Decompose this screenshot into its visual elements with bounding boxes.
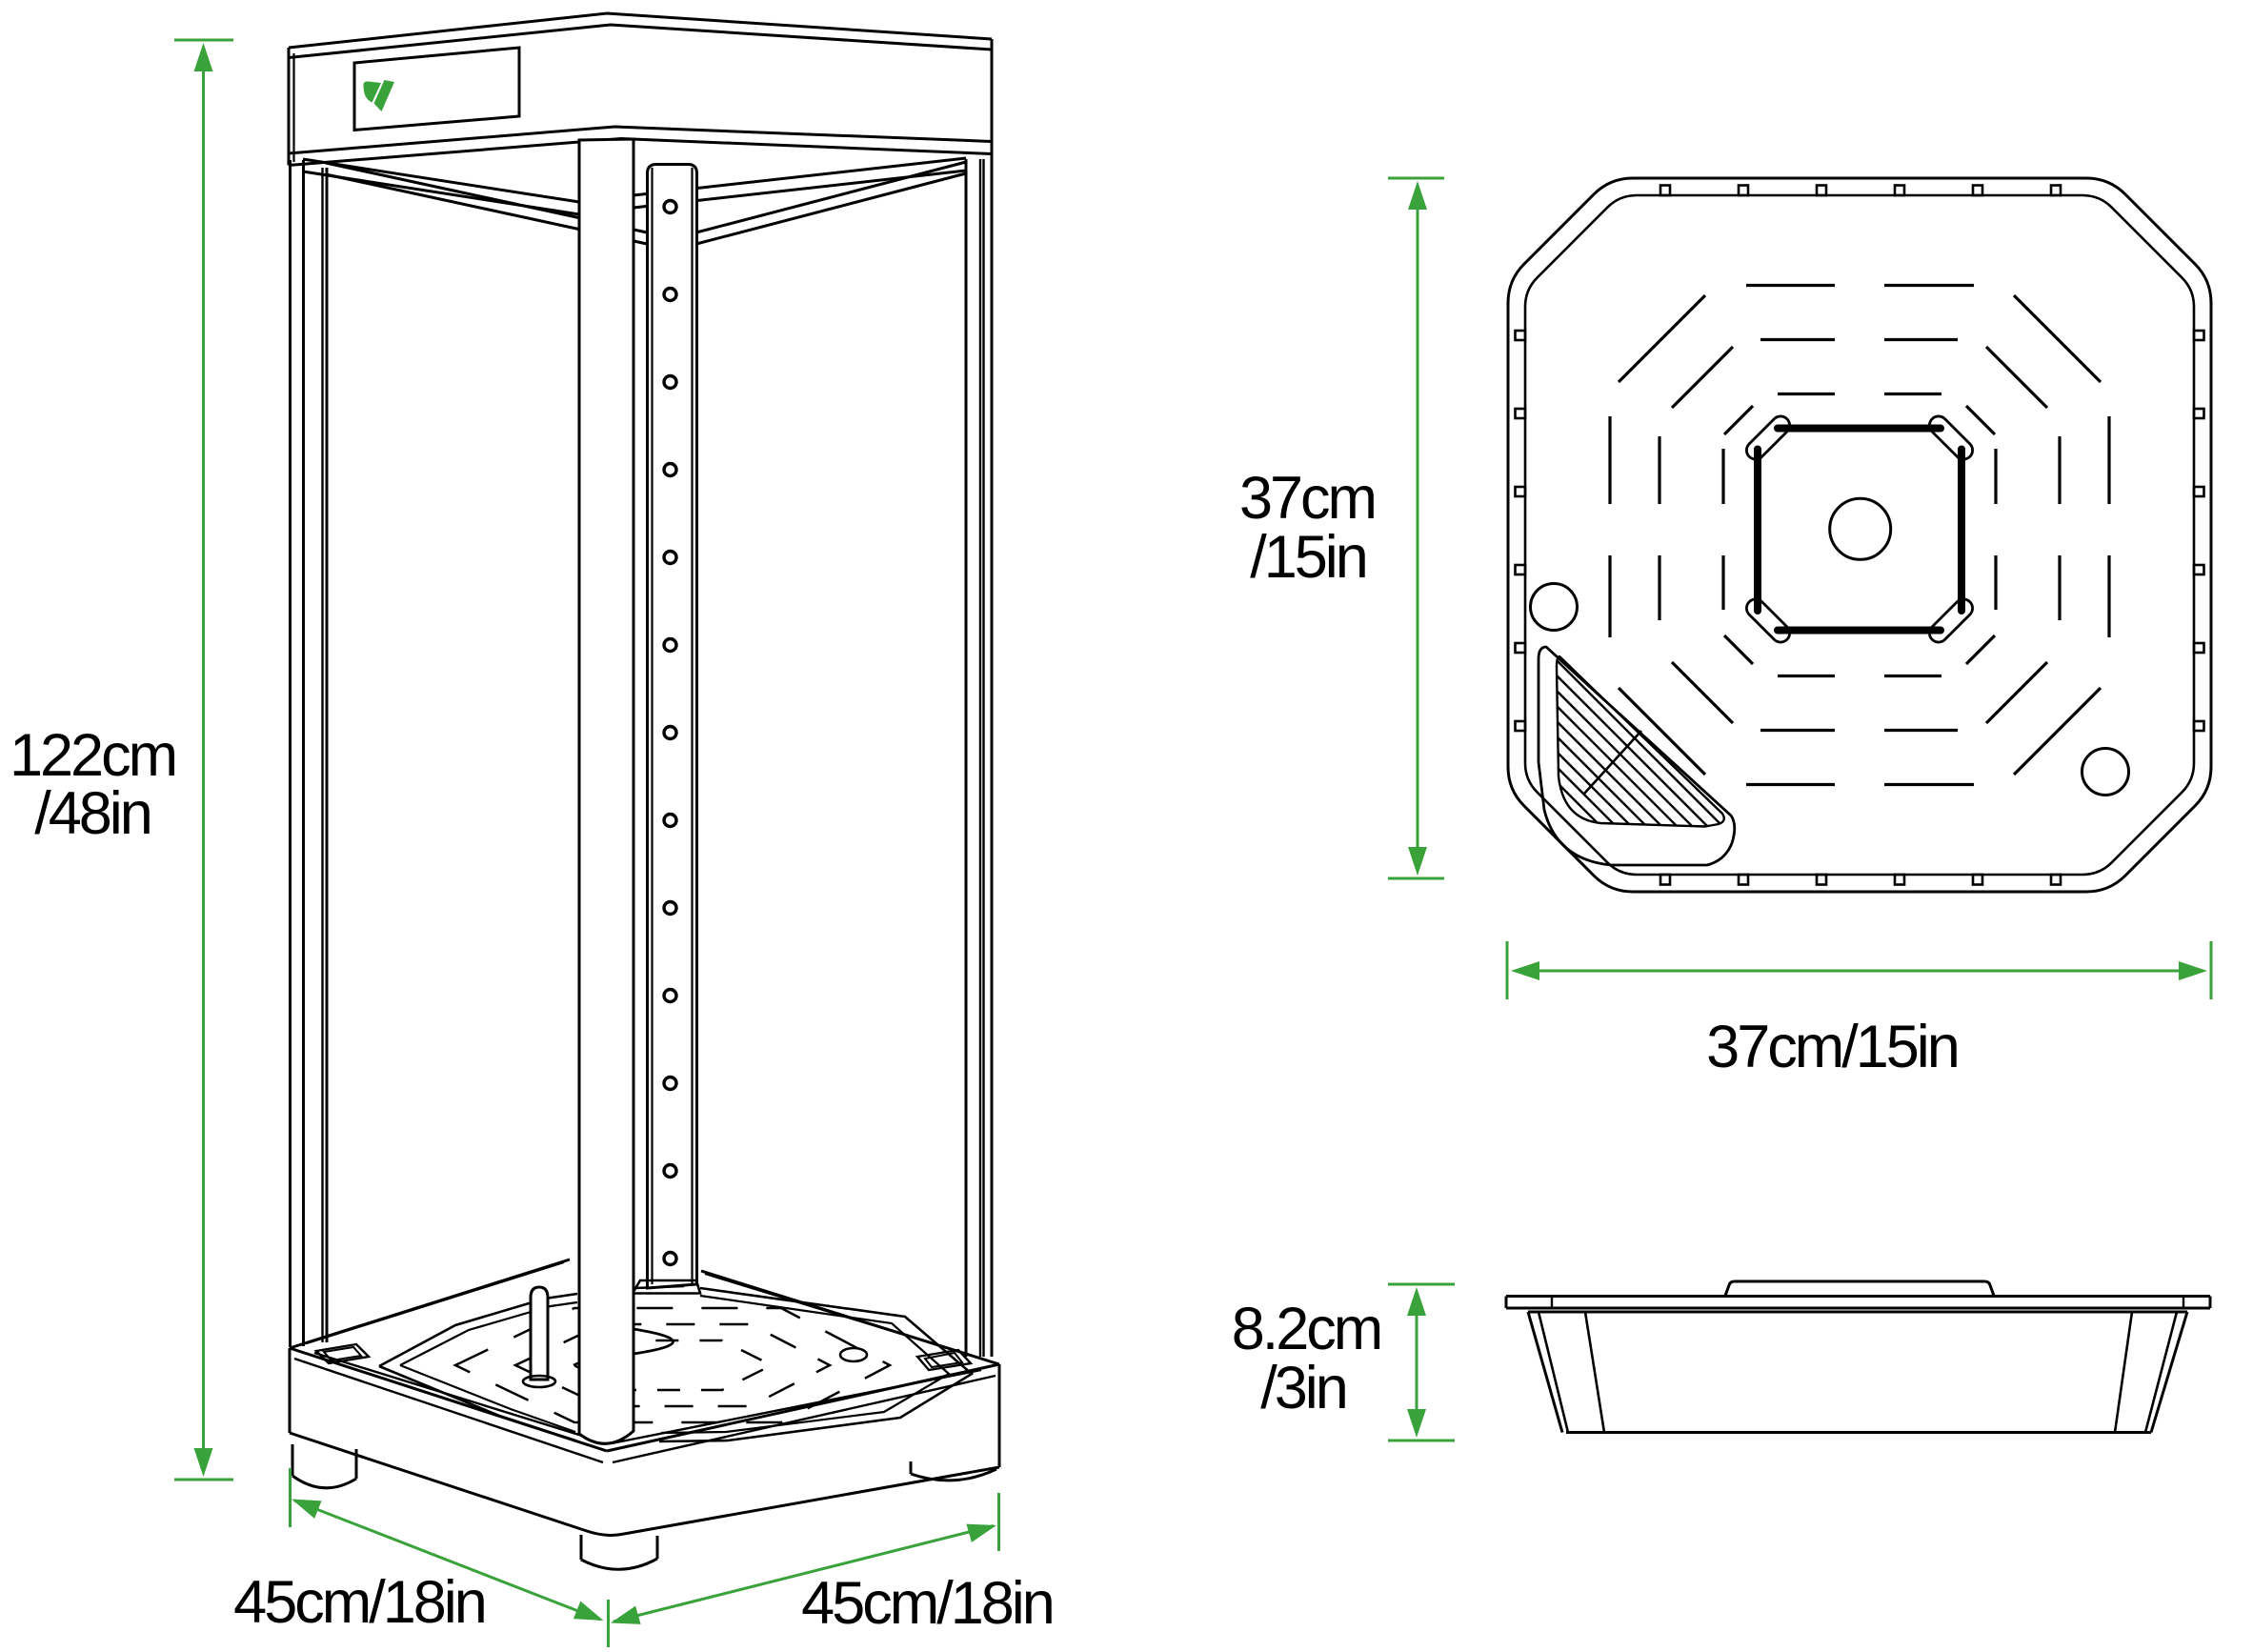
svg-text:/48in: /48in	[34, 780, 151, 847]
right corner slot	[917, 1350, 971, 1370]
water tube on base	[523, 1287, 555, 1387]
svg-text:122cm: 122cm	[10, 722, 175, 789]
left corner post	[291, 160, 328, 1347]
label 8.2cm/3in	[1232, 1296, 1381, 1421]
label 37cm/15in horizontal	[1706, 1014, 1958, 1080]
label 45cm/18in right	[801, 1570, 1053, 1637]
left corner slot	[316, 1344, 369, 1363]
dimension line 122cm/48in (vertical, left view)	[174, 40, 233, 1480]
base tray body	[290, 1259, 999, 1535]
square corner slots	[1742, 413, 1976, 646]
svg-text:/3in: /3in	[1260, 1355, 1346, 1421]
svg-text:8.2cm: 8.2cm	[1232, 1296, 1381, 1362]
tray side view	[1506, 1281, 2210, 1433]
left hole circle	[1531, 584, 1578, 631]
plate small hole	[840, 1348, 867, 1361]
dashed concentric rings	[1610, 286, 2109, 785]
rail foot bracket	[633, 1280, 700, 1294]
base feet	[292, 1444, 996, 1569]
svg-text:45cm/18in: 45cm/18in	[801, 1570, 1053, 1637]
dimension line 8.2cm/3in	[1388, 1284, 1455, 1440]
svg-text:37cm: 37cm	[1239, 465, 1375, 532]
label 37cm/15in vertical	[1239, 465, 1375, 591]
hatched drip tray pocket	[1486, 590, 1810, 1066]
dimension line 37cm/15in horizontal	[1507, 941, 2211, 999]
center circle	[1830, 498, 1891, 559]
logo panel (inset rectangle on cap)	[354, 48, 519, 131]
base top inner rim	[307, 1262, 985, 1443]
right corner post	[966, 154, 992, 1358]
svg-text:37cm/15in: 37cm/15in	[1706, 1014, 1958, 1080]
dimension lines 45cm/18in	[291, 1468, 999, 1647]
tower cap box	[289, 13, 992, 166]
rail holes	[664, 201, 676, 1265]
octagon plate outline (top view)	[1508, 178, 2211, 892]
back rail post	[648, 165, 697, 1289]
label 45cm/18in left	[233, 1569, 485, 1636]
top frame beams	[303, 158, 966, 244]
central thick square	[1758, 429, 1961, 631]
bottom-right hole circle	[2082, 749, 2129, 796]
base plate center hole	[634, 1329, 674, 1354]
green logo mark	[364, 80, 395, 111]
octagon edge ticks	[1516, 186, 2204, 885]
base plate dashed rings	[455, 1308, 890, 1422]
label 122cm/48in	[10, 722, 175, 847]
svg-text:/15in: /15in	[1250, 524, 1366, 591]
svg-text:45cm/18in: 45cm/18in	[233, 1569, 485, 1636]
dimension line 37cm/15in vertical	[1388, 178, 1444, 878]
central front column	[579, 139, 634, 1443]
base octagonal plate	[379, 1286, 972, 1441]
